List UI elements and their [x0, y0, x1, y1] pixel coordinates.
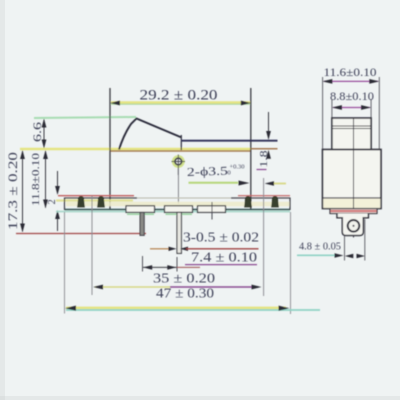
end-view body inner line [323, 197, 382, 199]
svg-text:0: 0 [228, 170, 231, 177]
dim 4.8 extension right [364, 219, 366, 261]
svg-text:47 ± 0.30: 47 ± 0.30 [156, 287, 214, 302]
dim 1.8 lower arrow [266, 150, 271, 159]
end-view body [323, 150, 382, 209]
highlight: body top line (yellow) [20, 148, 251, 151]
hole halo (green highlighter) [173, 156, 183, 166]
button cap line 2 [332, 128, 371, 130]
dim 17.3 arrows [20, 150, 25, 159]
leader phi3.5 right arrow (yellow tail) [273, 183, 286, 185]
dim 7.4 extension pin2 [176, 257, 178, 272]
terminal cap 1 highlight [127, 213, 154, 215]
label 7.4 underline (purple) [185, 264, 257, 266]
svg-text:3-0.5 ± 0.02: 3-0.5 ± 0.02 [183, 231, 259, 246]
svg-text:11.8±0.10: 11.8±0.10 [30, 152, 42, 206]
hole centerline down [177, 175, 179, 204]
leader 3-0.5 left segment (orange) [150, 248, 171, 250]
lever elbow tick [180, 135, 182, 150]
leader 2-phi3.5 (green underline with arrow) [189, 182, 239, 184]
dim 8.8 extension right [370, 99, 372, 118]
mounting plate highlight (yellow) [56, 199, 133, 201]
body right edge / 29.2 extension [250, 88, 252, 209]
dim 11.6 line (purple) [324, 80, 378, 82]
dim 17.3 line [22, 151, 24, 232]
flange red highlight [331, 210, 377, 212]
dim 6.6 line [43, 120, 45, 148]
dim 47 extension left [64, 212, 66, 314]
dim 11.8 line [45, 151, 47, 208]
end-view flange band [330, 209, 377, 214]
terminal cap 2 highlight [166, 213, 193, 215]
button outline [332, 118, 371, 150]
dim 7.4 extension pin1 [142, 256, 144, 272]
svg-text:35 ± 0.20: 35 ± 0.20 [153, 272, 215, 287]
dim 35 arrows [93, 285, 103, 290]
dim 4.8 arrows outward [345, 254, 354, 258]
terminal cap 1 [126, 206, 155, 213]
lever arm horizontal (navy) [181, 140, 278, 142]
terminal cap 3 [198, 206, 226, 213]
svg-text:1.8: 1.8 [259, 151, 270, 168]
dim 7.4 tail (red) [177, 266, 200, 268]
lug outline [337, 214, 368, 236]
button cap line [332, 125, 371, 127]
feet top reference line (pink red) [58, 195, 134, 197]
dim 17.3 bottom reference (red line) [16, 233, 146, 235]
svg-text:4.8 ± 0.05: 4.8 ± 0.05 [299, 242, 341, 253]
lug hole [348, 220, 360, 232]
terminal cap 3 centerline [211, 202, 213, 220]
svg-text:7.4 ± 0.10: 7.4 ± 0.10 [191, 251, 257, 266]
svg-text:2-ϕ3.5: 2-ϕ3.5 [187, 164, 228, 179]
dim 1.8 upper arrow [268, 112, 270, 134]
terminal cap 2 [165, 206, 193, 213]
hole circle 2-phi3.5 [175, 158, 182, 165]
dim 35 line right (purple) [170, 286, 258, 288]
leader 3-0.5 right segment (red underline) [180, 247, 188, 251]
svg-text:+0.30: +0.30 [230, 164, 245, 171]
body top extension right (tan) [251, 148, 278, 150]
hole crosshair [172, 155, 186, 176]
terminal pin 1 [140, 212, 144, 235]
dim 47 extension right [290, 212, 292, 314]
svg-text:8.8±0.10: 8.8±0.10 [330, 91, 374, 103]
rivet foot 3 [245, 197, 252, 208]
dim 4.8 leader underline (cyan) [297, 254, 335, 256]
lug hole center dot [352, 225, 354, 227]
svg-text:29.2 ± 0.20: 29.2 ± 0.20 [140, 88, 218, 104]
svg-text:17.3 ± 0.20: 17.3 ± 0.20 [6, 152, 20, 230]
dim 11.6 extension left [322, 77, 324, 150]
end-view body bottom band tint [323, 199, 380, 208]
dim 11.6 extension right [378, 77, 380, 150]
end-view centerline [353, 118, 355, 238]
extension at 264 [263, 178, 265, 196]
dim 47 line (yellow over cyan) [66, 309, 320, 311]
lever arc [119, 119, 181, 150]
dim 11.8 arrows [43, 150, 48, 159]
dim 4.8 extension left (lug side) [344, 236, 346, 261]
dim 6.6 arrows [42, 119, 47, 128]
dim 2 upper arrow [57, 171, 59, 188]
dim 35 extension right [263, 196, 265, 296]
dim 4.8 leader arrow [335, 253, 344, 257]
dim 29.2 arrows [110, 101, 120, 106]
dim 8.8 extension left [331, 99, 333, 118]
rivet foot 4 [272, 197, 279, 208]
highlight: lever top reference line (pale green) [34, 117, 136, 118]
dim 47 arrows [65, 306, 76, 311]
mounting plate right end [289, 198, 291, 211]
terminal pin 2 [177, 212, 181, 253]
dim 35 line left (yellow) [95, 286, 170, 288]
rivet foot 2 [98, 197, 105, 208]
body left edge [109, 88, 111, 209]
dim 2 lower arrow [57, 216, 59, 231]
mounting plate bottom edge (teal dark) [65, 209, 291, 211]
dim 35 extension left [91, 196, 93, 295]
svg-text:6.6: 6.6 [32, 122, 44, 142]
dim 1.8 underline (purple) [257, 169, 267, 171]
dim 8.8 line (purple) [333, 107, 370, 109]
mounting plate top edge [65, 197, 138, 199]
rivet foot 1 [78, 197, 85, 208]
dim 29.2 line (yellow+green) [111, 102, 250, 104]
mounting plate bottom highlight (cyan) [56, 211, 290, 213]
dim 8.8 arrows [332, 105, 342, 110]
dim 7.4 line with arrows [143, 266, 177, 268]
svg-text:11.6±0.10: 11.6±0.10 [324, 67, 377, 79]
dim 11.6 arrows [322, 79, 332, 84]
body top edge (tan/brown scan line) [110, 150, 251, 152]
mounting plate left end [64, 198, 66, 211]
